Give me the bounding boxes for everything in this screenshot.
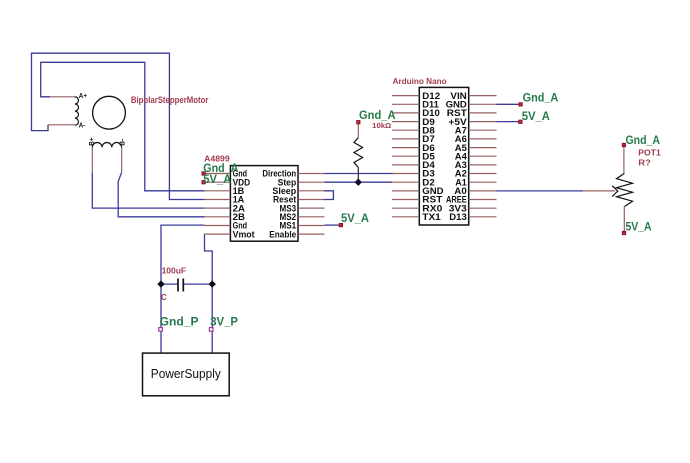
svg-text:Vmot: Vmot	[233, 229, 255, 239]
resistor R 10kOhm body	[354, 138, 363, 168]
Arduino right pin A7	[469, 129, 497, 131]
net label 3V_P	[209, 328, 213, 332]
potentiometer POT1 body zigzag	[617, 173, 633, 206]
wire B+ to A4899 pin 2A	[92, 172, 204, 208]
capacitor C 100uF plates	[177, 279, 179, 292]
wire Sleep to Reset loop	[324, 191, 333, 200]
svg-text:Gnd_A: Gnd_A	[523, 90, 559, 104]
Arduino left pin D6	[392, 147, 419, 149]
inductor coil A (phase A winding)	[75, 97, 79, 125]
Arduino left pin D12	[392, 95, 419, 97]
svg-text:C: C	[161, 293, 167, 302]
wire A4899 Vmot to PowerSupply (right rail)	[205, 234, 213, 353]
net label 5V_A at A4899 VDD	[202, 181, 205, 184]
A4899 right pin Reset	[298, 199, 325, 201]
svg-text:Gnd_A: Gnd_A	[626, 133, 661, 147]
svg-text:R?: R?	[638, 158, 651, 167]
svg-text:5V_A: 5V_A	[522, 109, 551, 123]
coil B lead wires	[91, 147, 93, 172]
svg-text:A+: A+	[79, 91, 88, 100]
Arduino left pin D10	[392, 112, 419, 114]
Arduino left pin D11	[392, 103, 419, 105]
net label Gnd_A at resistor	[357, 121, 360, 124]
resistor R top lead	[357, 124, 359, 138]
svg-text:A-: A-	[79, 120, 86, 129]
Arduino left pin D7	[392, 138, 419, 140]
A4899 left pin Vmot	[205, 233, 231, 235]
Arduino left pin D4	[392, 164, 419, 166]
wire Step to Arduino D2	[325, 181, 393, 183]
Arduino right pin A0	[469, 190, 497, 192]
Arduino left pin D2	[392, 181, 419, 183]
svg-text:5V_A: 5V_A	[203, 172, 231, 186]
svg-text:B+: B+	[87, 137, 96, 146]
Arduino right pin A4	[469, 155, 497, 157]
Arduino left pin D8	[392, 129, 419, 131]
wire B- to A4899 pin 2B	[118, 172, 204, 217]
Arduino left pin RX0	[392, 207, 419, 209]
wire capacitor branch left	[161, 283, 177, 285]
Arduino right pin A6	[469, 138, 497, 140]
Arduino right pin +5V	[469, 121, 497, 123]
net label Gnd_A at Arduino GND	[519, 103, 522, 106]
Arduino right pin A5	[469, 147, 497, 149]
Arduino right pin VIN	[469, 95, 497, 97]
net label 5V_A at MS1	[339, 223, 342, 226]
svg-text:PowerSupply: PowerSupply	[151, 366, 221, 381]
svg-text:5V_A: 5V_A	[341, 211, 369, 225]
net label Gnd_A at A4899 Gnd	[202, 172, 205, 175]
svg-text:10kΩ: 10kΩ	[372, 121, 391, 130]
Arduino left pin D9	[392, 121, 419, 123]
resistor R bottom lead	[357, 168, 359, 183]
svg-text:100uF: 100uF	[162, 266, 187, 275]
Arduino right pin 3V3	[469, 207, 497, 209]
A4899 right pin Step	[298, 181, 325, 183]
A4899 left pin Gnd	[205, 225, 231, 227]
wire A+ to A4899 pin 1B (inner loop)	[41, 62, 205, 191]
A4899 left pin VDD	[205, 181, 231, 183]
potentiometer wiper lead	[583, 190, 615, 192]
Arduino right pin AREE	[469, 199, 497, 201]
A4899 right pin Sleep	[298, 190, 325, 192]
wire Arduino A0 to potentiometer wiper	[497, 190, 584, 192]
potentiometer bottom lead	[623, 207, 625, 232]
wire Direction to Arduino D3	[325, 173, 394, 175]
svg-text:BipolarStepperMotor: BipolarStepperMotor	[131, 95, 209, 105]
Arduino right pin D13	[469, 216, 497, 218]
wire capacitor branch right	[184, 283, 212, 285]
wire Arduino +5V to 5V_A	[497, 121, 520, 123]
A4899 right pin Enable	[298, 233, 325, 235]
A4899 right pin MS3	[298, 207, 325, 209]
IC Arduino Nano box	[419, 87, 468, 225]
net label Gnd_P	[159, 328, 163, 332]
Arduino right pin A1	[469, 181, 497, 183]
A4899 right pin MS1	[298, 225, 325, 227]
Arduino left pin D3	[392, 173, 419, 175]
A4899 left pin 2A	[205, 207, 231, 209]
motor M circle (BipolarStepperMotor body)	[93, 96, 126, 129]
svg-text:Enable: Enable	[269, 229, 296, 239]
PowerSupply box	[143, 353, 230, 396]
A4899 right pin MS2	[298, 216, 325, 218]
wire MS1 to 5V_A	[325, 224, 340, 226]
net label Gnd_A at POT1 top	[622, 143, 625, 146]
coil A lead wires	[50, 96, 75, 98]
junction resistor to Step/D2 wire	[355, 179, 362, 186]
svg-text:D13: D13	[449, 212, 467, 222]
A4899 right pin Direction	[298, 173, 325, 175]
A4899 left pin 1B	[205, 190, 231, 192]
Arduino right pin GND	[469, 103, 497, 105]
Arduino left pin D5	[392, 155, 419, 157]
junction capacitor left	[157, 280, 164, 287]
A4899 left pin Gnd	[205, 173, 231, 175]
wire A- to A4899 pin 1A (outer loop)	[32, 53, 205, 199]
Arduino right pin RST	[469, 112, 497, 114]
net label 5V_A at Arduino +5V	[519, 120, 522, 123]
Arduino right pin A3	[469, 164, 497, 166]
Arduino right pin A2	[469, 173, 497, 175]
svg-text:Gnd_P: Gnd_P	[160, 315, 199, 329]
svg-text:POT1: POT1	[638, 148, 661, 157]
Arduino left pin GND	[392, 190, 419, 192]
wire Arduino GND to Gnd_A	[497, 103, 520, 105]
junction capacitor right	[209, 280, 216, 287]
potentiometer wiper arrow	[612, 186, 618, 197]
IC A4899 stepper driver box	[230, 166, 298, 242]
svg-text:TX1: TX1	[422, 212, 441, 222]
wire A4899 Gnd to PowerSupply (left rail)	[161, 225, 205, 353]
svg-text:3V_P: 3V_P	[210, 315, 238, 329]
svg-text:Gnd_A: Gnd_A	[359, 108, 396, 122]
svg-text:B-: B-	[118, 138, 127, 145]
Arduino left pin TX1	[392, 216, 419, 218]
svg-text:Arduino Nano: Arduino Nano	[393, 77, 447, 86]
A4899 left pin 1A	[205, 199, 231, 201]
A4899 left pin 2B	[205, 216, 231, 218]
inductor coil B (phase B winding)	[92, 143, 121, 148]
svg-text:5V_A: 5V_A	[626, 219, 652, 233]
net label 5V_A at POT1 bottom	[622, 231, 625, 234]
Arduino left pin RST	[392, 199, 419, 201]
potentiometer top lead	[623, 147, 625, 174]
